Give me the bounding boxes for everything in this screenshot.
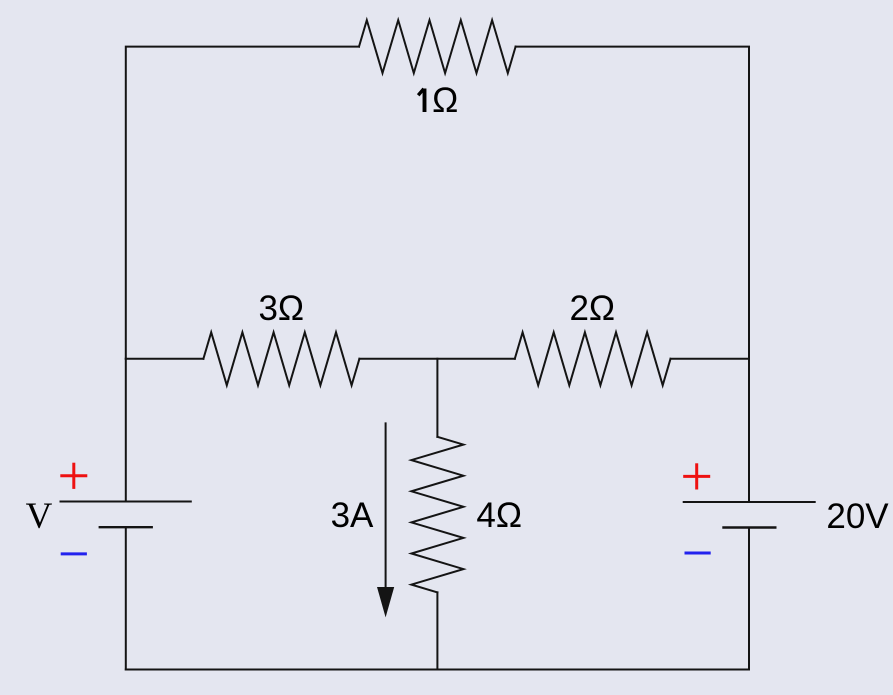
wire top-right segment [516,47,749,359]
wire right rail lower [748,528,750,670]
resistor R3 2ohm zigzag [515,332,671,385]
svg-text:3A: 3A [331,496,374,535]
resistor R1 1ohm zigzag [359,20,516,73]
wire bottom [126,669,749,671]
wire center branch upper [436,359,438,437]
plus sign left battery [60,463,87,489]
wire middle-right [671,358,750,360]
wire top-left segment [126,47,359,359]
wire left rail lower [125,527,127,669]
svg-text:Ω: Ω [432,81,458,120]
wire left rail upper to battery [125,359,127,502]
svg-text:2Ω: 2Ω [569,289,615,328]
svg-text:4Ω: 4Ω [476,496,522,535]
current arrow 3A shaft [385,423,387,589]
battery 20V long plate (+) [684,501,815,503]
minus sign right battery [685,552,711,555]
minus sign left battery [61,552,87,555]
current arrow 3A head [377,587,394,617]
label 1 ohm: digit 1 drawn (no foot serif) [418,89,424,113]
wire middle-center [359,358,514,360]
wire right rail upper to battery [748,359,750,502]
battery V short plate (-) [100,526,152,528]
wire center branch lower [436,592,438,669]
resistor R2 3ohm zigzag [203,332,359,385]
svg-text:3Ω: 3Ω [258,289,304,328]
plus sign right battery [683,463,710,489]
wire middle-left [126,358,204,360]
svg-text:V: V [26,496,53,537]
battery V long plate (+) [61,501,191,503]
battery 20V short plate (-) [724,526,776,528]
svg-text:20V: 20V [826,497,889,536]
resistor R4 4ohm zigzag vertical [411,437,463,593]
